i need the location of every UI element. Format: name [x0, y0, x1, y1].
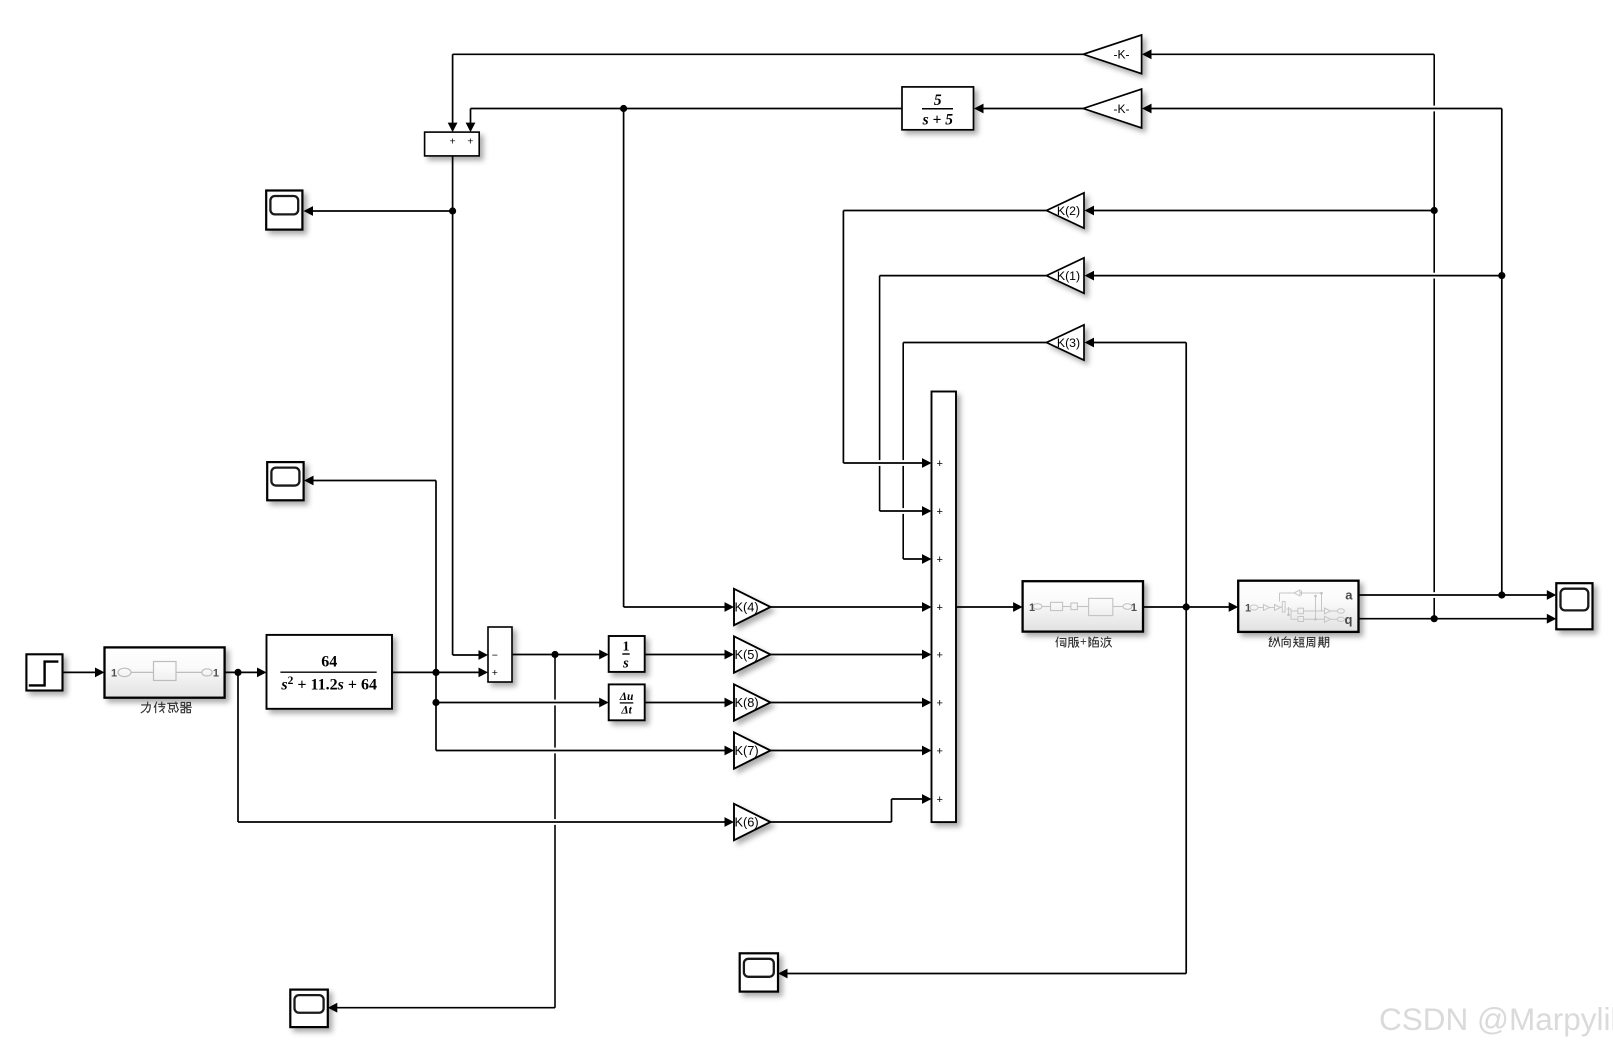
gain K(4) — [734, 589, 771, 625]
node: q line junction — [1431, 615, 1438, 622]
sum block (subtract, - +) — [488, 627, 512, 682]
wire: du/dt out to K(8) and big sum y=702.5 — [645, 702, 727, 704]
transfer fcn 5/(s+5) — [902, 87, 974, 130]
node: K(1) tap junction — [1498, 272, 1505, 279]
wire: K(3) row y=342.5 — [1093, 342, 1187, 344]
svg-text:Δt: Δt — [620, 705, 632, 717]
scope scope4 (bottom middle) — [740, 953, 778, 991]
gain K(8) — [734, 684, 771, 720]
svg-text:s: s — [622, 656, 629, 672]
wire: into subtract minus input y=655 — [453, 654, 481, 656]
wire: step to force sensor y=672.4 — [63, 671, 97, 673]
wire: K(4) row y=607 — [624, 606, 727, 608]
svg-text:1: 1 — [1029, 602, 1035, 614]
gain -K- at y=54.3 — [1083, 35, 1141, 74]
wire: 1/s out to K(5) and big sum y=654.5 — [645, 654, 727, 656]
label 力传感器 — [141, 702, 150, 713]
node: force sensor output junction — [234, 669, 241, 676]
gain -K- at y=108.5 — [1083, 89, 1141, 128]
svg-text:K(4): K(4) — [735, 600, 759, 615]
svg-text:+: + — [937, 506, 943, 518]
gain K(1) — [1047, 258, 1085, 293]
wire: TF64 branch vertical x=436 — [435, 481, 437, 751]
label 伺服+陷波 — [1056, 637, 1066, 647]
scope scope3 (bottom left) — [290, 990, 328, 1028]
node: derivative tap junction — [432, 699, 439, 706]
scope scope2 (mid left) — [267, 462, 303, 500]
wire: force sensor branch down to K(6) x=238 — [237, 672, 239, 822]
node: servo output junction — [1183, 603, 1190, 610]
svg-text:+: + — [937, 554, 943, 566]
svg-text:1: 1 — [111, 668, 117, 680]
node: TF64 output junction — [432, 669, 439, 676]
node: subtract output junction — [551, 651, 558, 658]
subsystem 力传感器 (force sensor) — [105, 647, 225, 697]
wire: -K-2 / 5 over s+5 feedback (a loop) y=108.5 — [471, 108, 903, 110]
gain K(3) — [1047, 325, 1085, 360]
wire: servo output branch vertical x=1186.2 — [1185, 343, 1187, 974]
svg-text:1: 1 — [623, 640, 630, 655]
wire: a feedback vertical x=1501.8 — [1501, 109, 1503, 596]
wire: q feedback vertical x=1434.2 — [1433, 54, 1435, 105]
wire: K(6) up corner x=891.5 — [891, 799, 893, 822]
wire: -K- top feedback (q loop) y=54.3 — [453, 53, 1084, 55]
svg-text:-K-: -K- — [1114, 48, 1130, 62]
wire: subtract branch down to scope3 y=1007.7 — [336, 1007, 555, 1009]
wire: K(3) to big sum input3 y=559 — [903, 558, 923, 560]
svg-text:+: + — [492, 667, 498, 679]
wire: K(3) down to big sum x=903.2 — [902, 343, 904, 461]
wire: scope2 feed y=480.5 — [312, 480, 436, 482]
svg-text:+: + — [937, 794, 943, 806]
wire: subtract output branch down to scope3 x=555 — [554, 655, 556, 700]
svg-text:K(2): K(2) — [1057, 204, 1080, 218]
transfer fcn 64/(s^2+11.2s+64) — [267, 635, 393, 709]
svg-text:+: + — [937, 602, 943, 614]
wire: 5/(s+5) output down into top sum right input x=470.5 — [470, 109, 472, 125]
integrator 1/s — [609, 636, 645, 672]
svg-text:K(3): K(3) — [1057, 336, 1080, 350]
wire: K(1) row y=275.6 — [1093, 275, 1502, 277]
svg-text:+: + — [937, 650, 943, 662]
wire: a output to scope5 y=595 — [1359, 594, 1550, 596]
svg-text:+: + — [937, 698, 943, 710]
svg-text:64: 64 — [321, 654, 337, 671]
wire: K(1) down to big sum x=879.6 — [879, 276, 881, 461]
sum block (top, + +) — [425, 132, 480, 156]
node: K(2) tap junction — [1431, 207, 1438, 214]
svg-text:s2 + 11.2s + 64: s2 + 11.2s + 64 — [280, 675, 377, 694]
svg-text:a: a — [1345, 588, 1353, 603]
big sum block (8 inputs) — [932, 392, 957, 823]
svg-text:K(5): K(5) — [735, 647, 759, 662]
node: a line junction — [1498, 591, 1505, 598]
svg-text:K(6): K(6) — [735, 815, 759, 830]
wire: K(2) input/output row y=210.5 — [1093, 210, 1435, 212]
wire: K(2) down to big sum x=843.4 — [842, 211, 844, 464]
subsystem 伺服+陷波 (servo+notch) — [1023, 581, 1143, 631]
wire: K(1) to big sum input2 y=511 — [880, 510, 924, 512]
svg-text:5: 5 — [934, 92, 942, 109]
wire: big sum out to servo y=607 — [956, 606, 1015, 608]
wire: servo out to short-period y=607 — [1143, 606, 1231, 608]
derivative du/dt — [609, 684, 645, 720]
scope scope5 (right) — [1556, 583, 1592, 629]
label 纵向短周期 — [1269, 637, 1280, 647]
wire: q output to scope5 y=618.7 — [1359, 618, 1550, 620]
svg-text:K(1): K(1) — [1057, 269, 1080, 283]
wire: into big sum input8 y=799 — [892, 798, 924, 800]
wire: K(2) to big sum input1 y=463 — [843, 462, 923, 464]
svg-text:K(7): K(7) — [735, 743, 759, 758]
svg-text:+: + — [937, 458, 943, 470]
gain K(6) — [734, 804, 771, 840]
svg-text:1: 1 — [213, 668, 219, 680]
svg-text:-K-: -K- — [1114, 102, 1130, 116]
svg-text:K(8): K(8) — [735, 695, 759, 710]
gain K(2) — [1047, 193, 1085, 228]
svg-text:+: + — [467, 136, 473, 148]
node: K(4) feed junction — [620, 105, 627, 112]
wire: servo branch down to scope4 y=973.5 — [786, 973, 1186, 975]
wire: TF64 out to subtract plus y=672.4 — [392, 671, 481, 673]
gain K(7) — [734, 732, 771, 768]
wire: scope1 feed y=211 — [312, 210, 453, 212]
svg-text:−: − — [492, 650, 498, 662]
svg-text:+: + — [937, 746, 943, 758]
svg-text:1: 1 — [1245, 603, 1251, 615]
wire: top sum output down to subtract x=452.6 — [452, 156, 454, 655]
node: top sum output / scope1 junction — [449, 207, 456, 214]
svg-text:+: + — [450, 136, 456, 148]
svg-text:1: 1 — [1131, 602, 1137, 614]
gain K(5) — [734, 636, 771, 672]
wire: K(6) row y=822 — [238, 821, 727, 823]
wire: to derivative du/dt y=702.5 — [436, 702, 602, 704]
subsystem 纵向短周期 (longitudinal short period) — [1238, 581, 1358, 632]
step source block — [26, 654, 62, 690]
scope scope1 (top left) — [266, 191, 302, 230]
svg-text:Δu: Δu — [619, 691, 634, 703]
svg-text:CSDN @Marpylili: CSDN @Marpylili — [1379, 1001, 1613, 1037]
svg-text:q: q — [1345, 612, 1353, 627]
wire: feedback branch down to K(4) x=623.6 — [623, 109, 625, 608]
svg-text:s + 5: s + 5 — [922, 112, 954, 129]
wire: -K- output down into top sum left input x=452.6 — [452, 54, 454, 124]
wire: K(7) row y=750.5 — [436, 750, 727, 752]
svg-text:+: + — [1080, 635, 1087, 648]
wire: subtract output to 1/s y=654.5 — [512, 654, 602, 656]
wire: force sensor to TF64 y=672.4 — [225, 671, 260, 673]
